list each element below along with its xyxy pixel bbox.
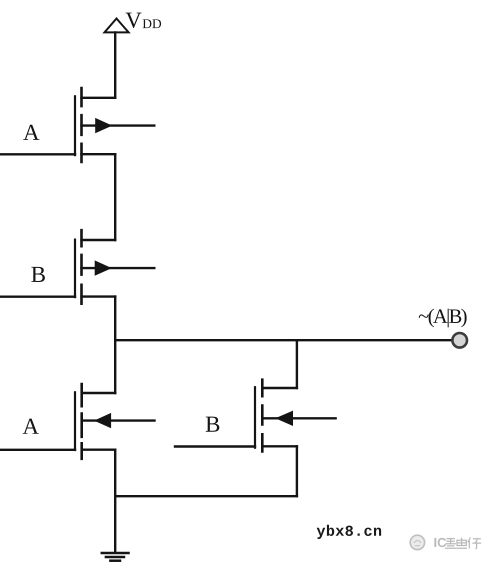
wire ground rail (115, 495, 297, 497)
watermark ybx8.cn (317, 525, 381, 539)
wire M1 drain to M2 source (114, 154, 116, 240)
wire M4 source to ground rail (296, 446, 298, 496)
ground symbol (102, 496, 129, 561)
label B (input of M4) (206, 417, 220, 432)
wire input A to M3 gate (0, 449, 75, 451)
watermark IC text (434, 537, 481, 548)
wire M4 drain to output node (296, 340, 298, 388)
power VDD symbol (105, 19, 129, 33)
wire output node to terminal (115, 339, 452, 341)
wire input A to M1 gate (0, 153, 75, 155)
pmos M1 input A (75, 88, 154, 162)
label A (input of M3) (23, 419, 39, 434)
nmos M3 input A (75, 384, 155, 459)
wire M3 source to ground rail (114, 450, 116, 497)
watermark IC logo circle (410, 535, 424, 549)
wire M2 drain to output node and M3 drain (114, 297, 116, 393)
nmos M4 input B (255, 380, 336, 452)
wire input B to M2 gate (0, 296, 75, 298)
wire input B to M4 gate (175, 445, 255, 447)
output terminal circle (452, 333, 467, 348)
label B (input of M2) (31, 267, 45, 282)
label A (input of M1) (23, 125, 39, 140)
label output ~(A|B) (419, 309, 467, 328)
pmos M2 input B (75, 230, 154, 304)
label VDD (126, 13, 162, 28)
wire VDD to M1 source (114, 32, 116, 97)
